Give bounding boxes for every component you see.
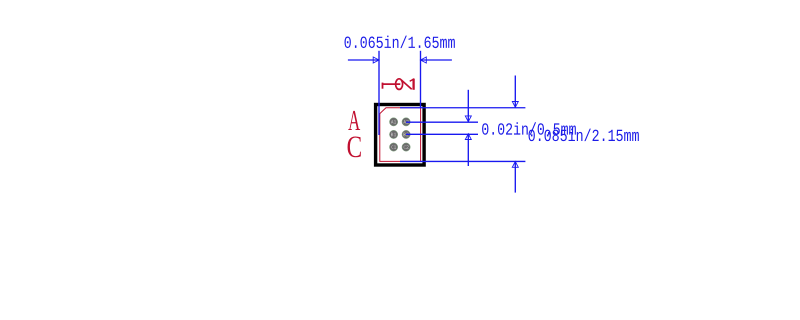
pad C1 [389, 143, 397, 151]
height dimension lower segment (x=515.3) [514, 162, 516, 193]
top dimension line left segment [348, 59, 379, 61]
row label C [348, 136, 361, 157]
top dimension line right segment [421, 59, 452, 61]
column label 1 (rotated) [382, 83, 400, 89]
row label A [348, 111, 360, 130]
pad B2 [402, 130, 410, 138]
pad A2 [402, 118, 410, 126]
extension line right (x=420.5) [420, 51, 422, 108]
pad B1 [389, 130, 397, 138]
pitch dimension lower arrowhead (up) [465, 134, 471, 140]
dimension text 0.02in/0.5mm [482, 122, 576, 134]
dimension text 0.085in/2.15mm [529, 129, 639, 141]
pad A1 [389, 118, 397, 126]
extension line left (x=379) [378, 51, 380, 135]
height dimension upper arrowhead (down) [512, 102, 518, 108]
extension line pad row A (y=122.15) [406, 121, 478, 123]
extension line top edge (y=107.75) [400, 107, 525, 109]
height dimension lower arrowhead (up) [512, 162, 518, 168]
height dimension upper segment (x=515.3) [514, 76, 516, 108]
top dimension left arrowhead [373, 57, 379, 63]
pad C2 [402, 143, 410, 151]
extension line pad row B (y=134.35) [406, 133, 478, 135]
pitch dimension upper segment (x=468.3) [467, 90, 469, 122]
pitch dimension lower segment (x=468.3) [467, 134, 469, 166]
column label 2 (rotated) [396, 79, 415, 90]
extension line bottom edge (y=161.4) [400, 160, 525, 162]
pitch dimension upper arrowhead (down) [465, 116, 471, 122]
package outline (black) [376, 105, 425, 166]
dimension text 0.065in/1.65mm [345, 36, 455, 48]
body outline (red, chamfered pin-1 corner) [380, 108, 421, 162]
top dimension right arrowhead [421, 57, 427, 63]
